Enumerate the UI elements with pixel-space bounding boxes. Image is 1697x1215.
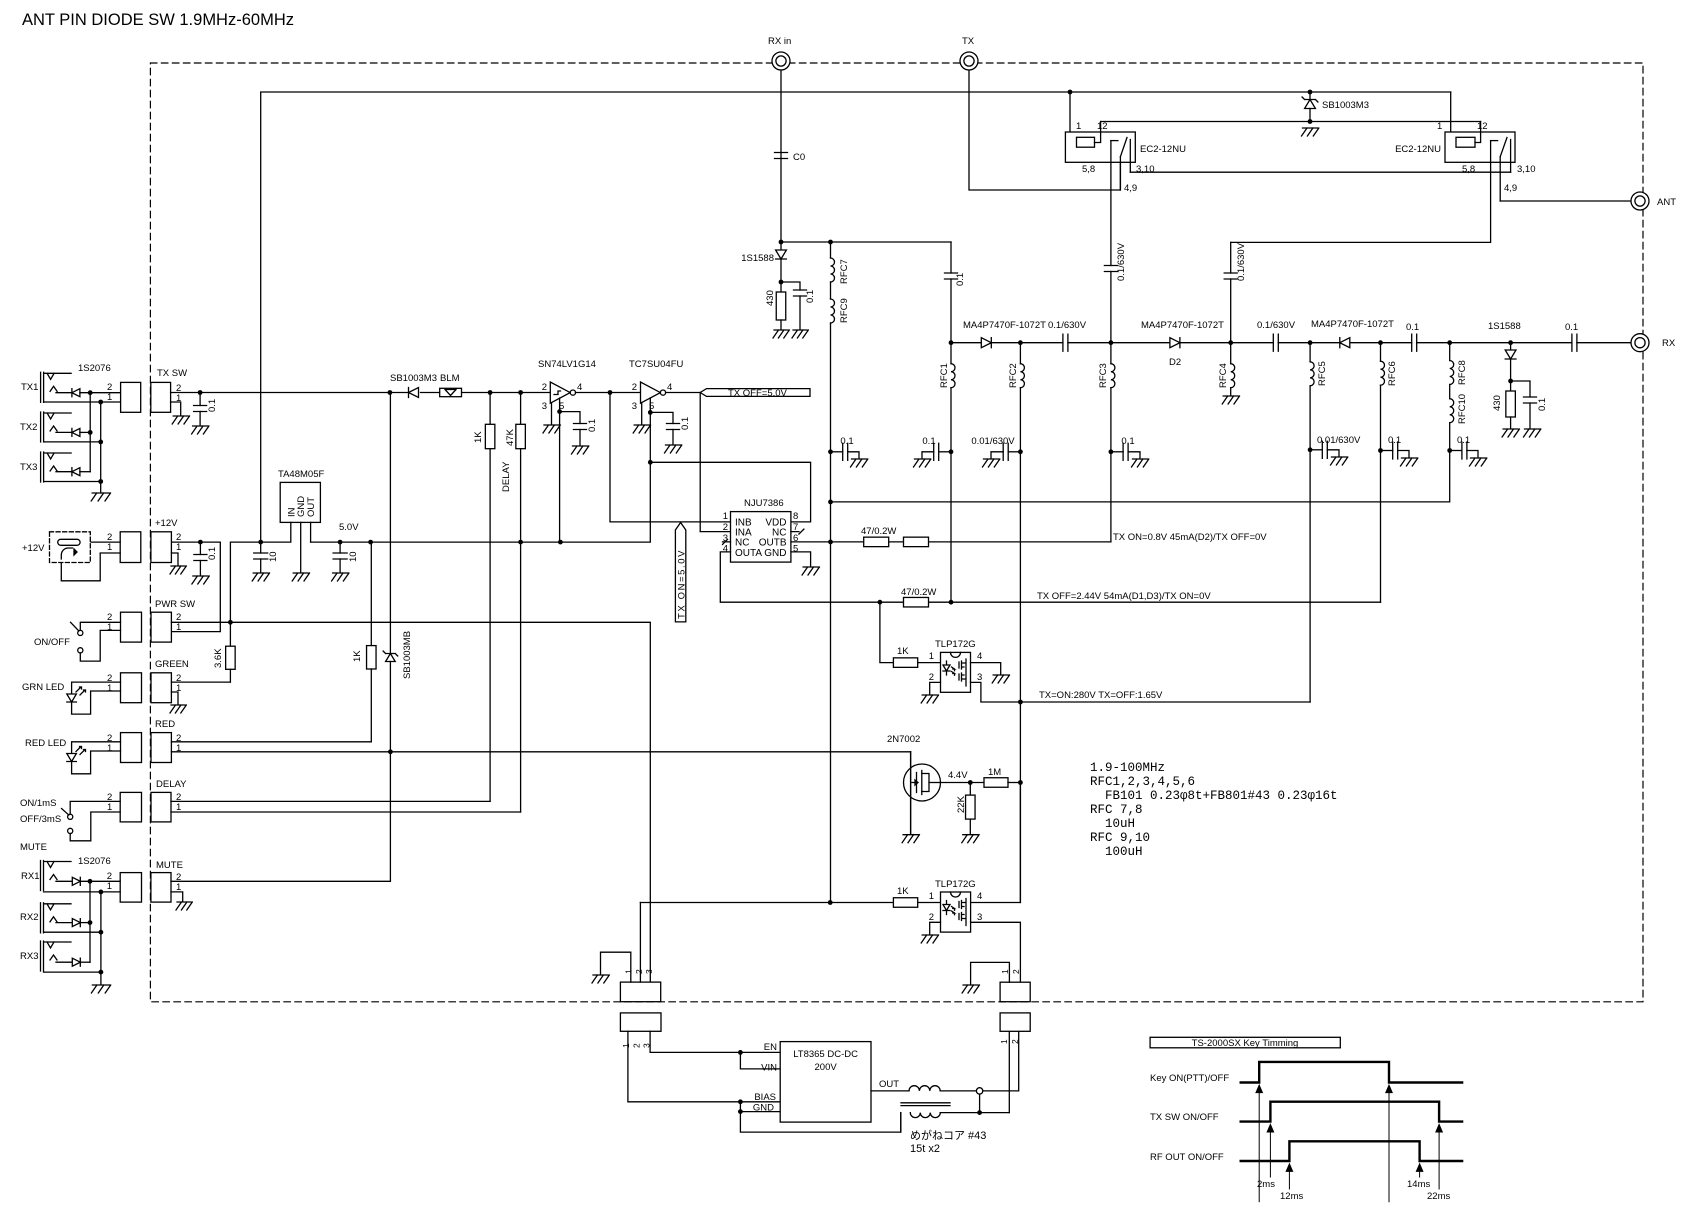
svg-text:RFC9: RFC9 bbox=[839, 298, 850, 323]
svg-text:3: 3 bbox=[644, 969, 654, 974]
ground bbox=[192, 576, 209, 584]
timing arrow 14ms bbox=[1417, 1164, 1423, 1171]
svg-text:0.01/630V: 0.01/630V bbox=[971, 436, 1015, 447]
svg-text:2: 2 bbox=[632, 1043, 642, 1048]
junction bbox=[198, 540, 203, 545]
pin3 NC stub bbox=[723, 539, 731, 544]
svg-text:RFC1: RFC1 bbox=[939, 363, 950, 388]
svg-text:MA4P7470F-1072T: MA4P7470F-1072T bbox=[963, 320, 1046, 331]
junction bbox=[1308, 447, 1313, 452]
capacitor 0.1 (U2) bbox=[574, 424, 587, 430]
wire relay1 coil pin1 from +12V line bbox=[1070, 92, 1077, 143]
wire PWR SW pin2 line (+12V switched) bbox=[171, 622, 650, 982]
inverter U2 SN74LV1G14 bbox=[550, 382, 570, 403]
wire OUTA bias line bbox=[720, 552, 1380, 602]
svg-text:RFC8: RFC8 bbox=[1457, 360, 1468, 385]
junction bbox=[648, 460, 653, 465]
wire bbox=[780, 260, 782, 293]
svg-text:VIN: VIN bbox=[761, 1063, 777, 1074]
junction bbox=[98, 479, 103, 484]
ferrite bead BLM bbox=[440, 388, 462, 396]
svg-text:0.1: 0.1 bbox=[955, 273, 966, 286]
svg-text:100uH: 100uH bbox=[1105, 845, 1143, 859]
ground bbox=[1302, 128, 1319, 136]
svg-text:MA4P7470F-1072T: MA4P7470F-1072T bbox=[1141, 320, 1224, 331]
svg-text:2: 2 bbox=[723, 522, 728, 533]
svg-text:GRN LED: GRN LED bbox=[22, 682, 64, 693]
relay K1 EC2-12NU body bbox=[1065, 132, 1135, 162]
svg-text:D2: D2 bbox=[1169, 357, 1181, 368]
ground bbox=[1470, 458, 1487, 466]
connector CN3 (int 2p) bbox=[1000, 982, 1030, 1002]
svg-text:RFC1,2,3,4,5,6: RFC1,2,3,4,5,6 bbox=[1090, 775, 1195, 789]
diode 1S2076 RX2 bbox=[72, 919, 80, 927]
wire main RX filter line bbox=[951, 342, 1632, 344]
wire +12Vsw to TLP2 bbox=[640, 902, 893, 904]
svg-text:0.1: 0.1 bbox=[207, 547, 218, 560]
node RX in bbox=[772, 52, 790, 70]
connector +12V (ext) bbox=[120, 532, 141, 563]
svg-text:DELAY: DELAY bbox=[156, 779, 187, 790]
junction bbox=[1447, 448, 1452, 453]
wire DELAY pin1 bbox=[171, 811, 521, 813]
ground bbox=[1132, 459, 1149, 467]
wire bbox=[80, 961, 90, 963]
svg-text:RFC5: RFC5 bbox=[1317, 361, 1328, 386]
wire plug pin2 bbox=[80, 541, 120, 543]
svg-text:SB1003M3: SB1003M3 bbox=[1322, 100, 1369, 111]
svg-text:2: 2 bbox=[632, 382, 637, 393]
inductor RFC3 bbox=[1110, 343, 1112, 364]
capacitor 10 (12V in) bbox=[260, 542, 262, 553]
svg-text:0.1: 0.1 bbox=[1121, 436, 1134, 447]
led RED bbox=[72, 742, 121, 754]
wire GND lead bbox=[740, 1111, 780, 1113]
svg-text:1: 1 bbox=[621, 1043, 631, 1048]
wire TX diode bus bbox=[89, 393, 91, 472]
wire U3 pin5 bbox=[649, 398, 651, 412]
junction bbox=[968, 780, 973, 785]
diode 1S2076 TX1 bbox=[72, 389, 80, 397]
svg-text:3: 3 bbox=[977, 912, 982, 923]
junction bbox=[779, 280, 784, 285]
ground bbox=[921, 695, 938, 703]
timing reference line bbox=[1258, 1086, 1260, 1202]
capacitor 0.1/630V (relay2 5,8) bbox=[1230, 242, 1232, 273]
node ANT bbox=[1631, 192, 1649, 210]
junction bbox=[878, 600, 883, 605]
svg-text:1S1588: 1S1588 bbox=[1488, 321, 1521, 332]
junction bbox=[738, 1109, 743, 1114]
junction bbox=[828, 540, 833, 545]
wire CN2 pin1 to BIAS bbox=[628, 1031, 780, 1102]
resistor 47/0.2W bbox=[904, 597, 929, 607]
svg-text:47/0.2W: 47/0.2W bbox=[861, 526, 896, 537]
svg-text:1: 1 bbox=[107, 542, 112, 553]
timing arrow 22ms bbox=[1436, 1125, 1442, 1132]
wire CN1 pin2 riser bbox=[639, 903, 641, 983]
svg-text:2: 2 bbox=[542, 382, 547, 393]
svg-text:5.0V: 5.0V bbox=[339, 522, 359, 533]
svg-text:0.01/630V: 0.01/630V bbox=[1317, 435, 1361, 446]
svg-text:1: 1 bbox=[107, 622, 112, 633]
wire OUT to CN pin2 bbox=[983, 1031, 1019, 1091]
timing arrow bbox=[1386, 1086, 1392, 1093]
wire GREEN pin1 gnd bbox=[171, 692, 178, 704]
svg-text:4,9: 4,9 bbox=[1124, 183, 1137, 194]
svg-text:TS-2000SX Key Timming: TS-2000SX Key Timming bbox=[1192, 1038, 1299, 1049]
junction bbox=[558, 540, 563, 545]
svg-text:TX=ON:280V TX=OFF:1.65V: TX=ON:280V TX=OFF:1.65V bbox=[1039, 690, 1163, 701]
wire GND loop bbox=[740, 1102, 900, 1132]
wire TLP2 pin4 bbox=[971, 783, 1021, 903]
capacitor 0.1/630V (relay1 5,8) bbox=[1104, 266, 1117, 272]
junction bbox=[99, 970, 104, 975]
junction bbox=[98, 400, 103, 405]
svg-text:TX SW: TX SW bbox=[157, 368, 187, 379]
wire bbox=[56, 880, 72, 882]
ground bbox=[1401, 458, 1418, 466]
inductor RFC7 bbox=[830, 242, 832, 258]
svg-text:2ms: 2ms bbox=[1257, 1179, 1275, 1190]
connector DELAY (ext) bbox=[120, 792, 141, 822]
svg-text:TX: TX bbox=[962, 36, 975, 47]
jack RX3 bbox=[41, 941, 44, 971]
wire RX in riser and +12V feed line bbox=[261, 70, 1451, 542]
jack RX2 bbox=[41, 903, 44, 933]
svg-text:RX: RX bbox=[1662, 338, 1676, 349]
jack TX1 bbox=[41, 372, 44, 402]
node TX bbox=[960, 52, 978, 70]
relay K2 switch bbox=[1491, 140, 1498, 142]
svg-text:4: 4 bbox=[577, 382, 582, 393]
svg-text:RFC4: RFC4 bbox=[1218, 363, 1229, 388]
svg-text:RX2: RX2 bbox=[20, 912, 38, 923]
wire bbox=[80, 392, 121, 394]
junction bbox=[368, 540, 373, 545]
inductor RFC1 bbox=[950, 343, 952, 364]
relay K2 EC2-12NU body bbox=[1445, 132, 1515, 162]
wire INB riser bbox=[610, 393, 731, 522]
svg-text:RX3: RX3 bbox=[20, 951, 38, 962]
ground bbox=[773, 330, 789, 338]
svg-text:200V: 200V bbox=[815, 1062, 838, 1073]
svg-text:4: 4 bbox=[977, 891, 982, 902]
capacitor C0 bbox=[775, 153, 788, 159]
svg-text:GND: GND bbox=[753, 1103, 774, 1114]
svg-text:1: 1 bbox=[107, 392, 112, 403]
jack TX3 bbox=[41, 452, 44, 482]
svg-text:RFC 9,10: RFC 9,10 bbox=[1090, 831, 1150, 845]
svg-text:12: 12 bbox=[1097, 121, 1108, 132]
svg-text:TLP172G: TLP172G bbox=[935, 639, 976, 650]
svg-text:TX ON=0.8V 45mA(D2)/TX OFF=0V: TX ON=0.8V 45mA(D2)/TX OFF=0V bbox=[1113, 532, 1267, 543]
ground bbox=[921, 935, 938, 943]
ground bbox=[792, 330, 808, 338]
ground bbox=[851, 459, 868, 467]
svg-text:0.1/630V: 0.1/630V bbox=[1048, 320, 1087, 331]
flag TX ON=5.0V bbox=[675, 523, 685, 622]
svg-text:22K: 22K bbox=[956, 795, 967, 813]
inductor RFC6 bbox=[1380, 343, 1382, 362]
svg-text:2N7002: 2N7002 bbox=[887, 734, 920, 745]
svg-text:0.1: 0.1 bbox=[1565, 322, 1578, 333]
wire 1S1588 top node bbox=[781, 241, 951, 243]
junction bbox=[1109, 449, 1114, 454]
junction bbox=[88, 920, 93, 925]
diode D3 MA4P7470F-1072T bbox=[1340, 338, 1350, 348]
svg-text:0.1/630V: 0.1/630V bbox=[1236, 242, 1247, 281]
svg-text:OUT: OUT bbox=[306, 497, 317, 517]
svg-text:430: 430 bbox=[1492, 395, 1503, 411]
junction bbox=[1018, 700, 1023, 705]
wire MUTE pin2 bbox=[171, 880, 390, 882]
svg-text:3: 3 bbox=[542, 401, 547, 412]
wire TX SW line bbox=[171, 392, 551, 394]
ground bbox=[592, 975, 609, 983]
relay K1 coil bbox=[1077, 137, 1095, 147]
optocoupler U6 TLP172G bbox=[941, 892, 971, 932]
junction bbox=[198, 390, 203, 395]
svg-text:RED LED: RED LED bbox=[25, 738, 66, 749]
capacitor 0.1 at RFC3 node bbox=[1111, 451, 1123, 453]
junction bbox=[1228, 340, 1233, 345]
wire TLP1 pin4 gnd bbox=[971, 663, 1001, 674]
svg-text:RFC2: RFC2 bbox=[1008, 363, 1019, 388]
svg-text:1: 1 bbox=[107, 881, 112, 892]
svg-text:3,10: 3,10 bbox=[1517, 164, 1536, 175]
ground bbox=[962, 985, 979, 993]
inductor RFC8 bbox=[1449, 343, 1451, 361]
timing arrow bbox=[1256, 1086, 1262, 1093]
svg-text:OFF/3mS: OFF/3mS bbox=[20, 814, 61, 825]
wire pin5 GND bbox=[791, 552, 811, 566]
inductor RFC5 bbox=[1309, 343, 1311, 362]
svg-text:TX SW ON/OFF: TX SW ON/OFF bbox=[1150, 1112, 1219, 1123]
ground bbox=[962, 835, 979, 843]
wire U2 pin5 bbox=[560, 398, 580, 424]
wire secondary to CN pin1 bbox=[1008, 1031, 1010, 1112]
junction bbox=[779, 240, 784, 245]
connector PWR SW (ext) bbox=[121, 612, 142, 642]
capacitor 0.1 (+12V) bbox=[199, 542, 201, 554]
ground bbox=[252, 573, 269, 581]
junction bbox=[1508, 340, 1513, 345]
resistor 1K (RED/5V) bbox=[370, 542, 372, 646]
wire U1 OUT lead bbox=[310, 522, 312, 542]
svg-text:SB1003MB: SB1003MB bbox=[402, 631, 413, 679]
ground bbox=[172, 416, 189, 424]
svg-text:0.1: 0.1 bbox=[1457, 435, 1470, 446]
capacitor 10 (5V out) bbox=[339, 542, 341, 553]
svg-text:0.1/630V: 0.1/630V bbox=[1257, 320, 1296, 331]
wire RED pin2 bbox=[171, 741, 371, 743]
wire CN1 pin1 gnd loop bbox=[601, 952, 631, 982]
junction bbox=[828, 900, 833, 905]
resistor 1K bbox=[893, 898, 917, 908]
svg-text:TLP172G: TLP172G bbox=[935, 879, 976, 890]
junction bbox=[1018, 449, 1023, 454]
wire relay1 pin12 bbox=[1095, 122, 1101, 143]
svg-text:10uH: 10uH bbox=[1105, 817, 1135, 831]
capacitor 0.1 at RFC10 node bbox=[1450, 450, 1462, 452]
svg-text:430: 430 bbox=[765, 290, 776, 306]
capacitor 0.1 (TX SW) bbox=[199, 393, 201, 406]
wire INA riser bbox=[700, 393, 730, 532]
ground bbox=[170, 566, 186, 574]
wire bbox=[781, 282, 800, 329]
svg-text:1M: 1M bbox=[988, 767, 1001, 778]
capacitor 0.1 at RFC9 node bbox=[831, 451, 843, 453]
svg-text:1: 1 bbox=[1076, 121, 1081, 132]
svg-text:1: 1 bbox=[929, 891, 934, 902]
diode D1 MA4P7470F-1072T bbox=[981, 338, 991, 348]
wire RX sleeve bus bbox=[100, 892, 102, 984]
junction bbox=[949, 600, 954, 605]
wire U2 pin3 gnd bbox=[551, 403, 553, 424]
svg-text:1: 1 bbox=[999, 1039, 1009, 1044]
svg-text:22ms: 22ms bbox=[1427, 1191, 1450, 1202]
wire bbox=[56, 922, 72, 924]
junction bbox=[828, 500, 833, 505]
inverter U3 TC7SU04FU bbox=[641, 382, 661, 403]
junction bbox=[88, 879, 93, 884]
diode SB1003M3 (TX SW) bbox=[409, 388, 419, 398]
wire bbox=[80, 880, 120, 882]
svg-text:2: 2 bbox=[1010, 1039, 1020, 1044]
connector DELAY (int) bbox=[151, 792, 171, 822]
svg-text:0.1: 0.1 bbox=[840, 436, 853, 447]
capacitor 0.1 series bbox=[1412, 334, 1417, 351]
svg-text:ANT: ANT bbox=[1657, 197, 1676, 208]
svg-text:15t x2: 15t x2 bbox=[910, 1143, 940, 1155]
power plug (dashed box) bbox=[50, 532, 91, 563]
svg-text:1: 1 bbox=[929, 651, 934, 662]
svg-text:0.1/630V: 0.1/630V bbox=[1116, 242, 1127, 281]
junction bbox=[99, 930, 104, 935]
wire RX diode bus bbox=[89, 881, 91, 962]
svg-text:MUTE: MUTE bbox=[20, 842, 47, 853]
svg-text:1: 1 bbox=[176, 622, 181, 633]
svg-text:TX ON=5.0V: TX ON=5.0V bbox=[676, 549, 687, 619]
svg-text:1: 1 bbox=[1437, 121, 1442, 132]
capacitor 0.1/630V series bbox=[1273, 334, 1278, 351]
svg-text:RFC 7,8: RFC 7,8 bbox=[1090, 803, 1143, 817]
wire relay2 5,8 lead bbox=[1231, 141, 1491, 243]
svg-text:1S2076: 1S2076 bbox=[78, 363, 111, 374]
wire PWR riser bbox=[230, 542, 260, 622]
svg-text:5,8: 5,8 bbox=[1462, 164, 1475, 175]
resistor 1K bbox=[893, 658, 917, 668]
wire relay2 coil pin1 bbox=[1451, 92, 1456, 143]
junction bbox=[228, 620, 233, 625]
svg-text:TA48M05F: TA48M05F bbox=[278, 469, 324, 480]
dashed enclosure border bbox=[150, 63, 1643, 1002]
wire TLP1 pin2 gnd bbox=[930, 682, 941, 694]
ic U4 NJU7386 bbox=[731, 512, 791, 562]
ground bbox=[633, 425, 650, 433]
timing title box bbox=[1150, 1037, 1340, 1048]
svg-text:BIAS: BIAS bbox=[754, 1092, 776, 1103]
svg-text:1K: 1K bbox=[897, 886, 909, 897]
svg-text:SB1003M3: SB1003M3 bbox=[390, 373, 437, 384]
connector GREEN (int) bbox=[151, 673, 171, 703]
wire U3 pin3 gnd bbox=[641, 403, 643, 424]
junction bbox=[1378, 340, 1383, 345]
wire bbox=[80, 922, 90, 924]
diode 1S2076 TX2 bbox=[72, 428, 80, 436]
wire CN2 pin3 to EN bbox=[650, 1031, 780, 1052]
wire VDD feed to NJU7386 bbox=[650, 462, 810, 522]
connector PWR SW (int) bbox=[151, 612, 171, 642]
svg-text:2: 2 bbox=[634, 969, 644, 974]
svg-text:0.1: 0.1 bbox=[207, 399, 218, 412]
wire TLP2 pin3 bbox=[971, 922, 1021, 982]
wire bbox=[56, 961, 72, 963]
resistor 47K bbox=[520, 393, 522, 425]
junction bbox=[557, 409, 562, 414]
wire 5.0V rail bbox=[311, 412, 651, 542]
ground bbox=[332, 573, 349, 581]
svg-text:NC: NC bbox=[735, 538, 749, 549]
ground bbox=[902, 835, 919, 843]
led GRN bbox=[72, 682, 121, 694]
wire bbox=[56, 392, 72, 394]
connector TX in (ext) bbox=[121, 382, 141, 412]
connector TX SW (int) bbox=[151, 382, 171, 412]
svg-text:PWR SW: PWR SW bbox=[155, 599, 195, 610]
wire bbox=[918, 902, 941, 904]
connector RED LED (ext) bbox=[121, 733, 142, 763]
junction bbox=[1308, 119, 1313, 124]
wire U2 pin5 to 5V rail bbox=[559, 412, 561, 542]
junction bbox=[338, 540, 343, 545]
wire TLP1 1K feed bbox=[880, 602, 894, 662]
transformer core bbox=[901, 1103, 950, 1106]
connector CN2 (ext 3p) bbox=[620, 1013, 661, 1031]
svg-text:5: 5 bbox=[793, 544, 798, 555]
capacitor 0.1 bbox=[794, 290, 807, 296]
svg-text:RF OUT ON/OFF: RF OUT ON/OFF bbox=[1150, 1152, 1224, 1163]
svg-text:47K: 47K bbox=[505, 428, 516, 446]
wire GREEN pin2 bbox=[171, 681, 230, 683]
svg-text:12ms: 12ms bbox=[1280, 1191, 1303, 1202]
jack RX1 bbox=[41, 861, 44, 891]
ground bbox=[192, 426, 209, 434]
svg-text:0.1: 0.1 bbox=[805, 290, 816, 303]
resistor 47/0.2W bbox=[864, 537, 889, 547]
flag TX OFF=5.0V bbox=[700, 389, 810, 397]
svg-text:NJU7386: NJU7386 bbox=[744, 498, 784, 509]
junction bbox=[738, 1050, 743, 1055]
ground bbox=[543, 425, 560, 433]
ground bbox=[1331, 457, 1348, 465]
svg-text:RFC7: RFC7 bbox=[839, 259, 850, 284]
resistor 3.6K bbox=[229, 622, 231, 646]
wire bbox=[56, 431, 72, 433]
wire relay coil ground bus bbox=[1101, 121, 1481, 123]
svg-text:OUT: OUT bbox=[879, 1079, 899, 1090]
wire MUTE pin1 gnd bbox=[171, 892, 183, 901]
regulator U1 TA48M05F bbox=[280, 482, 320, 522]
junction bbox=[1308, 340, 1313, 345]
wire OUT lead bbox=[871, 1090, 909, 1092]
svg-text:ON/OFF: ON/OFF bbox=[34, 637, 70, 648]
junction bbox=[88, 430, 93, 435]
capacitor 0.1 (U3) bbox=[650, 412, 673, 423]
wire OUTB to RFC8/10 bias line bbox=[831, 451, 1450, 502]
svg-text:47/0.2W: 47/0.2W bbox=[901, 587, 936, 598]
